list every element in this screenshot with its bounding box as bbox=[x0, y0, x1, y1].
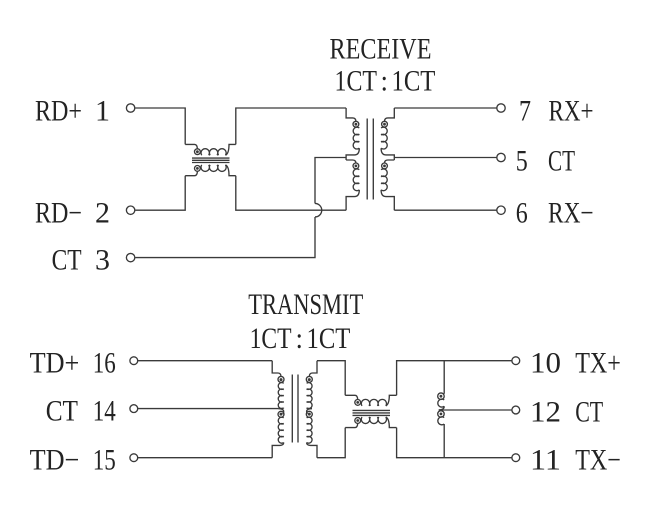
wire T1 secondary top to pin 7 bbox=[394, 107, 496, 109]
wire pin15 to T2 primary bottom bbox=[138, 457, 272, 459]
svg-text:TD+: TD+ bbox=[30, 347, 80, 380]
autotransformer lower half winding bbox=[439, 406, 444, 410]
choke CM2 bottom winding bbox=[345, 423, 358, 427]
svg-text:11: 11 bbox=[530, 443, 561, 476]
svg-text::: : bbox=[381, 64, 389, 97]
svg-text:RD−: RD− bbox=[35, 196, 82, 229]
wire hop over RD- rail bbox=[315, 203, 322, 217]
svg-text:1CT: 1CT bbox=[307, 322, 351, 355]
choke CM1 top winding bbox=[185, 144, 197, 148]
wire T1 secondary bottom to pin 6 bbox=[394, 209, 496, 211]
wire choke CM2 to pin 11 bbox=[397, 428, 512, 458]
pin 1 terminal bbox=[126, 104, 134, 112]
svg-text::: : bbox=[296, 322, 304, 355]
wire T2 secondary top to choke CM2 bbox=[317, 361, 345, 396]
svg-text:TX+: TX+ bbox=[575, 346, 621, 379]
svg-text:CT: CT bbox=[575, 396, 603, 429]
transformer T1 secondary upper winding bbox=[385, 108, 395, 121]
svg-text:TRANSMIT: TRANSMIT bbox=[248, 288, 363, 321]
svg-text:7: 7 bbox=[519, 95, 531, 128]
svg-text:RX+: RX+ bbox=[549, 95, 594, 128]
transformer T2 secondary lower dot bbox=[308, 413, 311, 416]
wire pin14 to T2 primary center tap bbox=[138, 408, 278, 410]
svg-text:15: 15 bbox=[93, 444, 116, 477]
choke CM2 bottom winding polarity dot bbox=[356, 419, 359, 422]
pin 14 terminal bbox=[130, 405, 138, 413]
transformer T1 primary upper winding bbox=[346, 108, 356, 121]
pin 15 terminal bbox=[130, 454, 138, 462]
svg-text:CT: CT bbox=[52, 244, 82, 277]
transformer T2 secondary upper winding bbox=[309, 361, 317, 377]
pin 7 terminal bbox=[497, 104, 505, 112]
wire choke CM2 to pin 10 bbox=[397, 361, 512, 396]
pin 10 terminal bbox=[512, 357, 520, 365]
transformer T1 secondary upper dot bbox=[383, 123, 386, 126]
svg-text:16: 16 bbox=[93, 347, 116, 380]
svg-text:RECEIVE: RECEIVE bbox=[330, 32, 432, 65]
svg-text:6: 6 bbox=[516, 196, 528, 229]
pin 6 terminal bbox=[497, 206, 505, 214]
transformer T2 primary lower winding bbox=[278, 409, 283, 414]
svg-text:TD−: TD− bbox=[30, 444, 80, 477]
autotransformer lower lead bbox=[443, 424, 445, 458]
transformer T2 primary upper winding bbox=[272, 361, 281, 377]
svg-text:TX−: TX− bbox=[575, 443, 621, 476]
svg-text:CT: CT bbox=[548, 144, 575, 177]
svg-text:14: 14 bbox=[93, 395, 116, 428]
wire pin1 to choke CM1 top-left bbox=[135, 108, 185, 144]
svg-text:1CT: 1CT bbox=[250, 322, 292, 355]
svg-text:RD+: RD+ bbox=[35, 95, 82, 128]
autotransformer upper half winding bbox=[438, 393, 445, 400]
choke CM1 bottom winding bbox=[185, 171, 197, 175]
transformer T1 secondary lower dot bbox=[383, 165, 386, 168]
svg-text:RX−: RX− bbox=[548, 196, 594, 229]
svg-text:2: 2 bbox=[95, 196, 110, 229]
choke CM1 top winding polarity dot bbox=[196, 150, 199, 153]
transformer T1 core bbox=[367, 119, 373, 200]
wire T2 secondary bottom to choke CM2 bbox=[317, 428, 345, 458]
transformer T2 secondary lower winding bbox=[307, 409, 312, 414]
svg-text:5: 5 bbox=[516, 144, 528, 177]
wire choke CM1 to T1 primary bottom (RD- rail) bbox=[236, 176, 346, 211]
transformer T1 secondary lower winding bbox=[385, 160, 395, 163]
transformer T2 primary lower dot bbox=[280, 413, 283, 416]
wire pin2 to choke CM1 bottom-left bbox=[135, 176, 185, 211]
wire riser to T1 primary center tap bbox=[315, 158, 346, 204]
wire pin3 CT vertical riser bbox=[135, 217, 315, 258]
autotransformer upper lead bbox=[443, 361, 446, 394]
pin 11 terminal bbox=[512, 454, 520, 462]
autotransformer lower dot bbox=[440, 413, 443, 416]
transformer T1 primary upper dot bbox=[355, 123, 358, 126]
choke CM2 top winding bbox=[345, 395, 358, 399]
wire autotransformer center tap to pin 12 bbox=[439, 409, 512, 411]
transformer T1 primary lower dot bbox=[355, 165, 358, 168]
pin 12 terminal bbox=[512, 406, 520, 414]
transformer T1 primary lower winding bbox=[346, 160, 356, 163]
wire T1 secondary center tap to pin 5 bbox=[394, 157, 496, 159]
svg-text:1CT: 1CT bbox=[392, 64, 436, 97]
pin 16 terminal bbox=[130, 357, 138, 365]
svg-text:CT: CT bbox=[46, 395, 78, 428]
svg-text:3: 3 bbox=[95, 244, 110, 277]
choke CM2 core bbox=[353, 410, 391, 415]
pin 2 terminal bbox=[126, 206, 134, 214]
svg-text:1CT: 1CT bbox=[335, 64, 378, 97]
svg-text:12: 12 bbox=[530, 396, 561, 429]
transformer T2 secondary upper dot bbox=[308, 378, 311, 381]
transformer T2 primary upper dot bbox=[280, 378, 283, 381]
autotransformer upper dot bbox=[440, 395, 443, 398]
choke CM1 core bbox=[192, 158, 230, 162]
choke CM2 top winding polarity dot bbox=[356, 401, 359, 404]
svg-text:1: 1 bbox=[95, 95, 110, 128]
wire choke CM1 to T1 primary top bbox=[236, 108, 346, 144]
wire pin16 to T2 primary top bbox=[138, 360, 272, 362]
pin 5 terminal bbox=[497, 153, 505, 161]
svg-text:10: 10 bbox=[530, 346, 561, 379]
choke CM1 bottom winding polarity dot bbox=[196, 167, 199, 170]
pin 3 terminal bbox=[126, 253, 134, 261]
transformer T2 core bbox=[292, 375, 298, 443]
